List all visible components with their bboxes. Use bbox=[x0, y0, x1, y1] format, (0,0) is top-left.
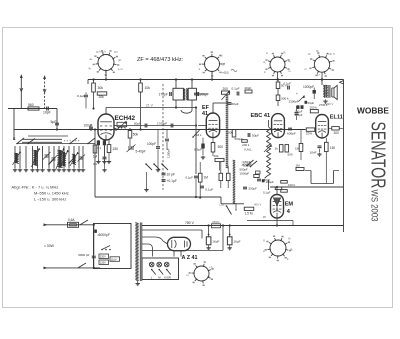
IF1 top leads bbox=[175, 78, 193, 88]
IF transformer 1 right can bbox=[188, 88, 196, 100]
svg-text:k g₃ a: k g₃ a bbox=[327, 52, 335, 56]
svg-text:1M: 1M bbox=[204, 176, 209, 180]
capacitor 100pF osc bbox=[147, 130, 160, 172]
antenna arrow A1 bbox=[20, 74, 23, 109]
svg-text:400 V: 400 V bbox=[254, 202, 261, 206]
capacitor 0.1uF right bbox=[284, 82, 292, 90]
svg-text:100pF: 100pF bbox=[262, 178, 270, 182]
svg-text:4: 4 bbox=[287, 209, 291, 215]
trimmer C bank3 bbox=[78, 155, 86, 162]
coupling loop bbox=[181, 110, 192, 113]
lamp panel labels bbox=[151, 275, 171, 279]
choke hatch bbox=[233, 160, 236, 204]
svg-text:g₁: g₁ bbox=[222, 62, 225, 66]
svg-text:1000pF: 1000pF bbox=[303, 85, 314, 89]
svg-text:1M: 1M bbox=[295, 147, 300, 151]
svg-text:780 V: 780 V bbox=[185, 221, 195, 225]
svg-text:10 pF: 10 pF bbox=[167, 173, 175, 177]
resistor 200k bbox=[310, 106, 319, 113]
label ZF=468/473 kHz bbox=[137, 57, 184, 63]
svg-text:300: 300 bbox=[334, 131, 340, 135]
socket label AZ41 pins bbox=[187, 265, 214, 279]
dial lamp 1 bbox=[149, 262, 155, 274]
label 400V bbox=[254, 202, 261, 206]
wire coil bank top link bbox=[17, 143, 95, 145]
svg-text:50µF: 50µF bbox=[308, 101, 315, 105]
labels det cluster bbox=[240, 163, 271, 191]
wire osc line bbox=[114, 124, 197, 126]
svg-text:21 V: 21 V bbox=[146, 103, 154, 107]
resistor 50k mid bbox=[228, 130, 243, 141]
svg-text:k: k bbox=[287, 257, 289, 261]
svg-text:0,1µF: 0,1µF bbox=[263, 191, 271, 195]
shield dashed line bbox=[162, 84, 164, 190]
resistor 1M det bbox=[198, 162, 208, 197]
svg-text:1700pF: 1700pF bbox=[157, 121, 167, 125]
tuning wobble symbol bbox=[223, 69, 237, 74]
svg-text:110V: 110V bbox=[111, 257, 117, 261]
svg-text:d₂: d₂ bbox=[288, 59, 292, 63]
svg-text:M: M bbox=[158, 275, 161, 279]
capacitor 0.1uF top bbox=[232, 87, 240, 96]
band switch right bbox=[69, 138, 95, 144]
svg-text:220V: 220V bbox=[100, 255, 106, 259]
dial lamp panel box bbox=[142, 258, 179, 280]
hum pot arrow bbox=[296, 92, 305, 102]
coil bank ground row bbox=[13, 168, 85, 172]
resistor 300k EBC bbox=[276, 95, 289, 106]
capacitor 50uF osc bbox=[134, 121, 147, 127]
resistor 1M EM grid bbox=[296, 164, 305, 171]
label EF 41 bbox=[202, 105, 210, 117]
svg-text:10k: 10k bbox=[214, 154, 219, 158]
mains wire 2 bbox=[44, 263, 101, 269]
svg-text:1M: 1M bbox=[296, 164, 301, 168]
heater loop 4 bbox=[142, 244, 153, 257]
svg-text:100pF: 100pF bbox=[147, 142, 156, 146]
svg-text:1000pF: 1000pF bbox=[240, 171, 250, 175]
capacitor 500pF bbox=[287, 120, 296, 136]
resistor 560 bbox=[28, 103, 39, 110]
resistor 500 EBC bbox=[285, 145, 293, 157]
svg-text:20 k: 20 k bbox=[306, 132, 312, 136]
svg-text:600pF: 600pF bbox=[287, 132, 296, 136]
resistor 20k horiz bbox=[97, 92, 107, 99]
svg-text:30k: 30k bbox=[98, 86, 104, 90]
svg-text:100pF: 100pF bbox=[199, 92, 208, 96]
fuse 0.6A bbox=[68, 218, 79, 227]
transformer primary box bbox=[94, 224, 132, 269]
label 0.1uF EM bbox=[263, 191, 271, 195]
svg-text:150: 150 bbox=[330, 146, 336, 150]
resistor 1.5M bbox=[244, 207, 271, 215]
wire AVC bus bbox=[14, 129, 305, 131]
capacitor 50uF mid bbox=[228, 102, 239, 106]
wire x95 drop bbox=[94, 128, 96, 150]
capacitor 5uF ant bbox=[51, 120, 60, 131]
svg-text:a: a bbox=[199, 67, 201, 71]
svg-text:g₂h g₄h: g₂h g₄h bbox=[96, 50, 106, 54]
transformer core winding bbox=[135, 223, 142, 282]
svg-text:170pF: 170pF bbox=[159, 93, 168, 97]
capacitor 1700pF osc bbox=[157, 121, 173, 127]
svg-text:0,1µF: 0,1µF bbox=[186, 176, 194, 180]
svg-text:A Z 41: A Z 41 bbox=[182, 255, 198, 261]
antenna arrow A2 bbox=[43, 75, 46, 109]
svg-text:+0,1µF: +0,1µF bbox=[167, 179, 177, 183]
capacitor blob pair bbox=[297, 105, 304, 109]
wire antenna drop bbox=[14, 109, 57, 141]
wire EF41 grid bbox=[198, 125, 206, 127]
switch arrow bank bbox=[48, 158, 74, 165]
svg-text:98: 98 bbox=[263, 215, 267, 219]
svg-text:k,m: k,m bbox=[118, 67, 123, 71]
tube socket diagram EL11 (top view) bbox=[309, 52, 334, 77]
resistor 200k det bbox=[242, 140, 252, 152]
svg-text:U.K: U.K bbox=[220, 203, 225, 207]
label 1300pF bbox=[289, 100, 299, 104]
svg-text:0,6A: 0,6A bbox=[68, 218, 75, 222]
tube EF41 bbox=[206, 113, 219, 138]
svg-text:+0,1: +0,1 bbox=[223, 71, 229, 75]
label AZ41 bbox=[182, 255, 198, 261]
label 98 bbox=[263, 215, 267, 219]
capacitor det 100pF bbox=[243, 179, 261, 189]
svg-text:0,1µF: 0,1µF bbox=[232, 87, 240, 91]
svg-text:g₁+: g₁+ bbox=[114, 50, 119, 54]
svg-text:K: K bbox=[13, 137, 16, 141]
trimmer C bank1 bbox=[43, 152, 51, 160]
capacitor 170pF bbox=[159, 92, 172, 97]
capacitor cath blob 1 bbox=[93, 140, 101, 166]
socket labels EBC41 bbox=[263, 50, 292, 74]
svg-text:400µF: 400µF bbox=[295, 113, 303, 117]
capacitor 50pF 2 bbox=[248, 133, 259, 138]
svg-text:50k: 50k bbox=[133, 133, 139, 137]
svg-text:L: L bbox=[151, 275, 153, 279]
resistor 50k osc bbox=[128, 128, 138, 146]
oscillator coil bbox=[114, 121, 128, 131]
label 290V bbox=[325, 102, 334, 106]
coil L3 dark bbox=[56, 148, 69, 169]
svg-text:f₁: f₁ bbox=[209, 275, 211, 279]
socket stub leads to bus bbox=[105, 71, 323, 81]
capacitor 6000pF mains bbox=[78, 224, 96, 268]
svg-text:20k: 20k bbox=[99, 95, 105, 99]
resistor 1k EBC cath bbox=[275, 138, 284, 152]
svg-text:EL11: EL11 bbox=[330, 114, 343, 120]
coil L2 dark bbox=[32, 148, 41, 167]
label EL11 bbox=[330, 114, 343, 120]
svg-text:50µF: 50µF bbox=[134, 121, 141, 125]
svg-text:28000: 28000 bbox=[212, 220, 220, 224]
heater loop 3 bbox=[142, 224, 224, 250]
capacitor 0.5uF EF cath bbox=[194, 138, 205, 160]
coil L4 dark bbox=[70, 152, 79, 166]
svg-text:M–550 u. 1450 kHz: M–550 u. 1450 kHz bbox=[34, 191, 69, 196]
resistor 10k top bbox=[139, 78, 151, 130]
trimmer 5-40pF bbox=[127, 145, 146, 154]
svg-text:41: 41 bbox=[202, 111, 208, 117]
svg-text:WS 2003: WS 2003 bbox=[370, 190, 380, 222]
label 30W bbox=[44, 244, 55, 248]
det box small bbox=[254, 175, 259, 178]
svg-text:•6000pF: •6000pF bbox=[98, 233, 110, 237]
socket labels EF41 bbox=[199, 53, 229, 75]
label 2700pF bbox=[319, 103, 328, 107]
padder switches bbox=[145, 163, 168, 170]
svg-text:10k: 10k bbox=[145, 86, 151, 90]
coil bank vertical leads bbox=[15, 146, 83, 168]
svg-text:30000: 30000 bbox=[234, 203, 238, 211]
alignment note line1 bbox=[12, 185, 59, 190]
loudspeaker bbox=[332, 85, 337, 99]
svg-text:g₁: g₁ bbox=[308, 52, 311, 56]
capacitor 100uF det blob bbox=[262, 179, 274, 184]
label ECH42 bbox=[115, 115, 136, 122]
svg-text:6000 pF: 6000 pF bbox=[78, 253, 89, 257]
resistor 1M coil bbox=[93, 145, 98, 159]
svg-text:1k: 1k bbox=[275, 147, 279, 151]
label EM 4 bbox=[285, 202, 294, 216]
label 1100pF vertical bbox=[165, 130, 171, 159]
resistor net v2 bbox=[226, 166, 230, 188]
EM divider resistors bbox=[275, 181, 295, 193]
svg-text:≈ 30W: ≈ 30W bbox=[44, 244, 55, 248]
capacitor 16uF no2 bbox=[227, 224, 240, 250]
svg-text:ECH42: ECH42 bbox=[115, 115, 136, 122]
wire EM4 leads bbox=[276, 186, 278, 227]
wire EF41 anode bbox=[213, 103, 227, 113]
capacitor EBC right bbox=[295, 106, 299, 120]
tube EM4 magic eye bbox=[271, 195, 284, 219]
svg-text:150: 150 bbox=[113, 147, 119, 151]
svg-text:K,M,L: K,M,L bbox=[245, 148, 253, 152]
wire EM4 cathode line bbox=[247, 221, 293, 226]
voltage selector bbox=[99, 246, 120, 265]
resistor 150 cath bbox=[107, 140, 118, 164]
label 780V bbox=[181, 221, 199, 226]
svg-text:50k: 50k bbox=[228, 131, 233, 135]
svg-text:560: 560 bbox=[28, 103, 34, 107]
brand SENATOR vertical bbox=[367, 122, 389, 189]
resistor 10k det bbox=[214, 154, 225, 171]
svg-text:0,1µF: 0,1µF bbox=[205, 188, 213, 192]
tube AZ41 rectifier bbox=[168, 237, 191, 250]
svg-text:300: 300 bbox=[218, 145, 224, 149]
wire crossover 1 bbox=[28, 135, 68, 137]
svg-text:0,1µF: 0,1µF bbox=[284, 82, 292, 86]
svg-text:g: g bbox=[263, 238, 265, 242]
svg-text:4000pF: 4000pF bbox=[242, 163, 252, 167]
svg-text:g₁: g₁ bbox=[283, 50, 286, 54]
svg-text:L –150 u. 300 kHz: L –150 u. 300 kHz bbox=[34, 197, 66, 202]
svg-text:0,1: 0,1 bbox=[97, 146, 102, 150]
svg-text:20pF: 20pF bbox=[245, 86, 252, 90]
svg-text:1300pF: 1300pF bbox=[289, 100, 299, 104]
capacitor 50uF blob bbox=[305, 101, 315, 105]
IF transformer 1 windings bbox=[183, 89, 188, 101]
output block lines bbox=[305, 171, 339, 184]
wire ECH42 anode 21V bbox=[106, 103, 196, 114]
coil L1 dark bbox=[13, 151, 22, 165]
svg-text:SENATOR: SENATOR bbox=[367, 122, 389, 189]
resistor 28000 box bbox=[212, 220, 221, 228]
capacitor 0.1uF det bbox=[162, 179, 177, 183]
capacitor 300pF bbox=[197, 92, 209, 97]
svg-text:100 k: 100 k bbox=[288, 183, 296, 187]
capacitor 0.1uF IF drop bbox=[186, 176, 199, 199]
svg-text:5µF: 5µF bbox=[51, 120, 57, 124]
heater loop 2 bbox=[142, 237, 168, 244]
svg-text:+: + bbox=[296, 92, 298, 96]
tube socket diagram EM4 (bottom) bbox=[265, 236, 292, 262]
svg-text:g₁: g₁ bbox=[288, 236, 291, 240]
svg-text:m: m bbox=[305, 67, 308, 71]
svg-text:200: 200 bbox=[223, 87, 229, 91]
svg-text:M,L: M,L bbox=[197, 133, 202, 137]
resistor 20k EL grid bbox=[295, 128, 316, 136]
svg-text:125V: 125V bbox=[100, 261, 106, 265]
label 6000pF bbox=[94, 230, 110, 238]
svg-text:a: a bbox=[266, 51, 268, 55]
capacitor 0.1uF coil area bbox=[97, 144, 107, 172]
choke label 30000 bbox=[234, 203, 238, 211]
svg-text:500µF: 500µF bbox=[249, 187, 257, 191]
band switch K bbox=[13, 137, 35, 144]
IF transformer 1 left can bbox=[173, 88, 183, 100]
svg-text:WOBBE: WOBBE bbox=[357, 107, 390, 116]
svg-text:5-40pF: 5-40pF bbox=[136, 150, 146, 154]
svg-text:K/GR: K/GR bbox=[164, 275, 171, 279]
capacitor 100pF EF grid bbox=[194, 92, 208, 96]
svg-text:2700 F: 2700 F bbox=[319, 103, 328, 107]
tube socket diagram EF41 (top view) bbox=[199, 51, 225, 76]
svg-text:0,5µF: 0,5µF bbox=[194, 148, 202, 152]
tone switch bbox=[220, 198, 232, 215]
capacitor 100uF avc bbox=[84, 124, 94, 131]
volume pot zigzag bbox=[264, 120, 272, 190]
resistor 300 EL bbox=[328, 127, 343, 135]
capacitor 10pF bbox=[43, 107, 51, 115]
svg-text:d₁: d₁ bbox=[263, 60, 266, 64]
wire AZ41 legs bbox=[174, 251, 181, 257]
resistor 1M EL bbox=[295, 130, 303, 160]
wire right rail bbox=[343, 80, 345, 233]
switch M L bbox=[192, 130, 202, 138]
capacitor 0.1uF mid bbox=[199, 186, 213, 198]
svg-text:16µF: 16µF bbox=[233, 240, 240, 244]
capacitor cath blob 2 bbox=[102, 141, 106, 164]
svg-text:Abgl.-FNr.: K - 7 u. ¼ MHz: Abgl.-FNr.: K - 7 u. ¼ MHz bbox=[12, 185, 59, 190]
alignment note line2 bbox=[34, 191, 69, 196]
tube ECH42 bbox=[98, 114, 114, 140]
capacitor 16uF no1 bbox=[206, 224, 219, 250]
resistor 200 pot bbox=[222, 87, 231, 100]
alignment note line3 bbox=[34, 197, 66, 202]
capacitor 10n EL cath bbox=[310, 138, 322, 156]
svg-text:10pF: 10pF bbox=[43, 111, 51, 115]
svg-text:aₕ: aₕ bbox=[90, 57, 94, 61]
brand WS 2003 vertical bbox=[370, 190, 380, 222]
wire HT bus 780V bbox=[142, 225, 344, 227]
brand WOBBE bbox=[357, 107, 390, 116]
svg-text:EM: EM bbox=[285, 202, 294, 208]
svg-text:0,1µF: 0,1µF bbox=[77, 94, 85, 98]
trimmer C bank2 bbox=[50, 155, 58, 163]
dial lamp 2 bbox=[157, 262, 163, 274]
svg-text:EBC 41: EBC 41 bbox=[251, 113, 271, 119]
capacitor 20pF top bbox=[245, 86, 253, 93]
svg-text:50µF: 50µF bbox=[252, 134, 259, 138]
capacitor 50n top bbox=[276, 78, 287, 95]
tube socket diagram ECH42 (top view) bbox=[93, 50, 120, 76]
tube EL11 bbox=[316, 115, 329, 139]
svg-text:500: 500 bbox=[288, 153, 293, 157]
wire output stage line bbox=[270, 186, 344, 188]
svg-text:ZF = 468/473 kHz:: ZF = 468/473 kHz: bbox=[137, 57, 184, 63]
IF1 bottom leads bbox=[175, 100, 192, 110]
ground mid bbox=[144, 172, 148, 192]
svg-text:g₃: g₃ bbox=[89, 66, 93, 70]
resistor net v1 bbox=[219, 162, 223, 188]
svg-text:d₂: d₂ bbox=[290, 247, 294, 251]
socket labels ECH42 bbox=[89, 50, 124, 72]
wire mid ground bus bbox=[95, 150, 244, 204]
svg-text:f f: f f bbox=[317, 73, 320, 77]
wire IF1 secondary drop bbox=[195, 106, 197, 174]
svg-text:0,1: 0,1 bbox=[93, 162, 97, 166]
svg-text:16µF: 16µF bbox=[212, 240, 219, 244]
output transformer bbox=[323, 85, 330, 98]
label EBC41 bbox=[251, 113, 271, 119]
svg-text:200 k: 200 k bbox=[310, 106, 318, 110]
det band arrows bbox=[242, 160, 258, 168]
dial linkage bars bbox=[22, 139, 80, 142]
heater loop 1 bbox=[142, 230, 202, 239]
mains wire 1 bbox=[44, 220, 94, 226]
resistor 150 EL bbox=[325, 138, 336, 184]
svg-text:200 k: 200 k bbox=[242, 143, 249, 147]
resistor 30k bbox=[92, 78, 104, 109]
svg-text:g₂: g₂ bbox=[220, 53, 224, 57]
capacitor 10pF det bbox=[162, 173, 175, 177]
wire antenna input line bbox=[8, 108, 57, 110]
EF41 screen hatch bbox=[226, 95, 229, 168]
socket labels EL11 bbox=[305, 49, 336, 78]
capacitor 1000pF bbox=[303, 85, 316, 99]
output transformer ground bbox=[323, 100, 327, 104]
svg-text:10nF: 10nF bbox=[310, 151, 317, 155]
speaker feed chevron bbox=[321, 78, 344, 85]
svg-text:gh: gh bbox=[118, 58, 122, 62]
dial lamp 3 bbox=[164, 262, 170, 274]
wire top B+ bus bbox=[88, 80, 344, 85]
det small box bbox=[256, 171, 261, 174]
transformer core ground bbox=[136, 281, 140, 286]
tube socket diagram EBC41 (top view) bbox=[265, 53, 289, 77]
labels 100uF 400pF bbox=[295, 110, 303, 118]
socket labels EM4 bbox=[263, 236, 294, 261]
svg-text:1,5 M: 1,5 M bbox=[245, 212, 253, 216]
svg-text:g₂: g₂ bbox=[316, 49, 320, 53]
resistor 300 EF bbox=[211, 138, 223, 156]
svg-text:m: m bbox=[288, 69, 291, 73]
svg-text:k: k bbox=[264, 70, 266, 74]
svg-text:50µF: 50µF bbox=[232, 102, 239, 106]
tube socket diagram AZ41 (bottom) bbox=[189, 261, 214, 286]
svg-text:1M: 1M bbox=[93, 155, 98, 159]
